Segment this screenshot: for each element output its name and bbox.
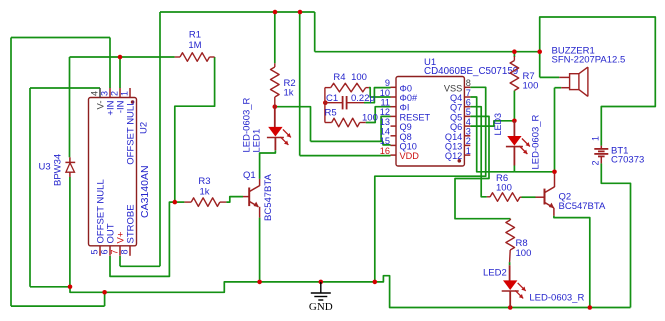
svg-text:VSS: VSS	[444, 83, 462, 93]
svg-text:BC547BTA: BC547BTA	[263, 174, 274, 221]
svg-text:8: 8	[466, 78, 471, 88]
svg-text:12: 12	[380, 107, 390, 117]
svg-text:Q1: Q1	[243, 170, 256, 181]
svg-text:4: 4	[90, 91, 100, 96]
svg-text:GND: GND	[309, 301, 333, 313]
svg-text:5: 5	[466, 107, 471, 117]
svg-text:Q6: Q6	[450, 122, 462, 132]
svg-text:Q10: Q10	[400, 141, 417, 151]
svg-text:11: 11	[380, 98, 390, 108]
svg-text:7: 7	[110, 249, 120, 254]
svg-text:Φ0#: Φ0#	[400, 93, 418, 103]
svg-text:Q5: Q5	[450, 112, 462, 122]
svg-text:CA3140AN: CA3140AN	[139, 165, 151, 218]
svg-text:R3: R3	[198, 176, 210, 187]
svg-text:6: 6	[100, 249, 110, 254]
svg-text:100: 100	[496, 183, 512, 194]
svg-text:RESET: RESET	[400, 112, 431, 122]
svg-text:100: 100	[351, 72, 367, 83]
svg-text:14: 14	[380, 127, 390, 137]
svg-text:2: 2	[591, 160, 601, 165]
svg-text:U2: U2	[139, 122, 150, 134]
svg-text:R1: R1	[189, 30, 201, 41]
svg-text:3: 3	[100, 91, 110, 96]
svg-text:BPW34: BPW34	[53, 154, 64, 186]
svg-text:1: 1	[466, 146, 471, 156]
svg-text:LED2: LED2	[483, 267, 507, 278]
svg-text:3: 3	[466, 127, 471, 137]
svg-text:STROBE: STROBE	[125, 204, 136, 243]
svg-text:U3: U3	[39, 161, 51, 172]
svg-text:Φ0: Φ0	[400, 83, 412, 93]
svg-text:4: 4	[466, 117, 471, 127]
svg-text:Q4: Q4	[450, 93, 462, 103]
svg-text:Q7: Q7	[450, 103, 462, 113]
svg-text:VDD: VDD	[400, 151, 420, 161]
svg-text:2: 2	[110, 91, 120, 96]
svg-text:8: 8	[120, 249, 130, 254]
svg-text:Q8: Q8	[400, 132, 412, 142]
svg-text:1: 1	[120, 91, 130, 96]
svg-text:2: 2	[466, 136, 471, 146]
svg-text:LED-0603_R: LED-0603_R	[530, 114, 541, 169]
svg-text:1: 1	[591, 136, 601, 141]
svg-text:15: 15	[380, 136, 390, 146]
svg-text:100: 100	[362, 113, 378, 124]
svg-text:ΦI: ΦI	[400, 103, 410, 113]
svg-text:16: 16	[380, 146, 390, 156]
svg-text:100: 100	[523, 81, 539, 92]
svg-text:Q14: Q14	[445, 132, 462, 142]
svg-text:R5: R5	[325, 108, 337, 119]
svg-text:1k: 1k	[199, 187, 209, 198]
svg-text:BC547BTA: BC547BTA	[559, 201, 606, 212]
svg-text:5: 5	[90, 249, 100, 254]
svg-text:0.22μ: 0.22μ	[351, 93, 375, 104]
svg-text:SFN-2207PA12.5: SFN-2207PA12.5	[552, 55, 626, 66]
svg-text:1M: 1M	[188, 40, 201, 51]
svg-text:9: 9	[385, 78, 390, 88]
svg-text:OFFSET NULL: OFFSET NULL	[125, 101, 136, 165]
svg-text:10: 10	[380, 88, 390, 98]
svg-text:13: 13	[380, 117, 390, 127]
svg-text:Q9: Q9	[400, 122, 412, 132]
svg-text:100: 100	[516, 248, 532, 259]
svg-text:R4: R4	[333, 72, 345, 83]
svg-text:1k: 1k	[284, 88, 294, 99]
svg-text:LED3: LED3	[493, 113, 503, 136]
svg-text:7: 7	[466, 88, 471, 98]
svg-text:C70373: C70373	[611, 155, 644, 166]
svg-text:LED-0603_R: LED-0603_R	[529, 293, 584, 304]
svg-text:CD4060BE_C507159: CD4060BE_C507159	[424, 66, 518, 77]
svg-text:Q13: Q13	[445, 141, 462, 151]
svg-text:6: 6	[466, 98, 471, 108]
svg-text:C1: C1	[326, 93, 338, 104]
svg-text:LED1: LED1	[252, 129, 263, 153]
